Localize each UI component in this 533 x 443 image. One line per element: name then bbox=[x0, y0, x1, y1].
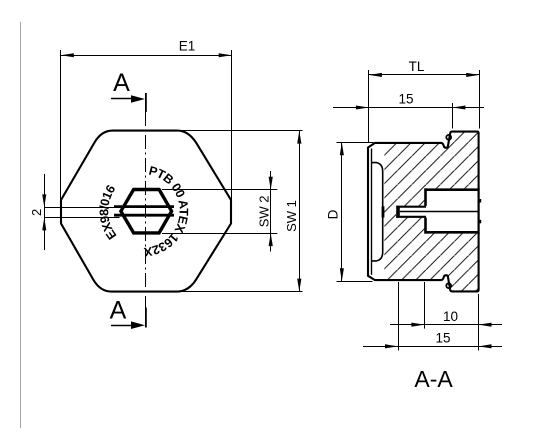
dimension E1 line bbox=[61, 55, 232, 57]
svg-text:SW 2: SW 2 bbox=[257, 196, 272, 228]
svg-text:15: 15 bbox=[435, 331, 450, 346]
thread nub upper bbox=[479, 199, 481, 203]
hex socket bottom wall upper bbox=[424, 188, 427, 206]
centerline (section plane A-A) bbox=[145, 112, 147, 309]
dimension 15 bottom extension right bbox=[478, 294, 480, 350]
dimension SW1 extension line bottom bbox=[180, 291, 303, 293]
dimension SW2 line bbox=[270, 171, 272, 252]
dimension 15 bottom extension left bbox=[398, 282, 400, 350]
dimension D extension top bbox=[337, 142, 374, 144]
dimension SW1 line bbox=[299, 131, 301, 292]
svg-text:15: 15 bbox=[398, 92, 413, 107]
hex socket upper edge bbox=[424, 188, 478, 191]
thread nub lower bbox=[479, 220, 481, 224]
svg-text:TL: TL bbox=[409, 59, 425, 74]
dimension 15 extension bbox=[452, 103, 454, 129]
dimension 10 line bbox=[390, 324, 502, 326]
unhatched face zone bbox=[355, 120, 384, 300]
slot mouth on face bbox=[382, 206, 385, 217]
unhatched hex socket cavity bbox=[424, 188, 482, 233]
curved marking text PTB 00 ATEX 1632X bbox=[142, 175, 180, 248]
dimension E1 extension line right bbox=[231, 50, 233, 200]
hex socket lower edge bbox=[424, 231, 478, 234]
hex socket (front view, thick) bbox=[121, 190, 172, 233]
thread undercut curl bottom bbox=[446, 283, 451, 288]
unhatched slot channel bbox=[396, 206, 426, 218]
section body outline upper bbox=[368, 132, 479, 281]
dimension SW2 extension line bottom bbox=[162, 233, 277, 235]
svg-text:SW 1: SW 1 bbox=[284, 200, 299, 232]
svg-text:2: 2 bbox=[29, 209, 44, 216]
dimension SW1 extension line top bbox=[180, 130, 303, 132]
dimension 2 line bbox=[44, 174, 46, 250]
slot extension line left upper bbox=[44, 207, 119, 209]
screwdriver slot lower edge bbox=[114, 214, 174, 217]
svg-text:D: D bbox=[325, 209, 340, 219]
slot channel lower edge bbox=[396, 216, 426, 218]
svg-text:A-A: A-A bbox=[414, 366, 453, 392]
dimension TL line bbox=[369, 74, 479, 76]
svg-text:A: A bbox=[110, 297, 127, 325]
dimension 10 extension left bbox=[424, 282, 426, 329]
slot extension line left lower bbox=[44, 217, 119, 219]
dimension 15 line bbox=[333, 107, 484, 109]
svg-text:E1: E1 bbox=[179, 39, 196, 54]
drawing frame edge bbox=[20, 22, 22, 428]
thread undercut curl top bbox=[446, 135, 451, 140]
dimension D line bbox=[341, 142, 343, 281]
curved marking text EX98/016 bbox=[108, 185, 119, 236]
svg-text:10: 10 bbox=[443, 309, 458, 324]
hex socket bottom wall lower bbox=[424, 218, 427, 234]
dimension D extension bottom bbox=[337, 281, 373, 283]
slot channel upper edge bbox=[396, 206, 426, 208]
slot bottom cap bbox=[396, 206, 400, 218]
section body outline lower bbox=[441, 232, 478, 291]
dimension TL extension left bbox=[368, 70, 370, 142]
dimension TL extension right bbox=[479, 70, 481, 129]
svg-text:A: A bbox=[113, 69, 130, 97]
hex socket vertex line bbox=[400, 211, 478, 213]
section body hatching bbox=[360, 125, 485, 297]
face rim line bbox=[371, 149, 373, 275]
hex head outline (front view) bbox=[61, 131, 231, 292]
screwdriver slot upper edge bbox=[114, 205, 174, 208]
dimension E1 extension line left bbox=[60, 50, 62, 200]
rear face edge bbox=[478, 188, 480, 234]
dimension 15 bottom line bbox=[363, 346, 502, 348]
dimension SW2 extension line top bbox=[162, 189, 277, 191]
face chamfer panel bbox=[372, 163, 383, 261]
